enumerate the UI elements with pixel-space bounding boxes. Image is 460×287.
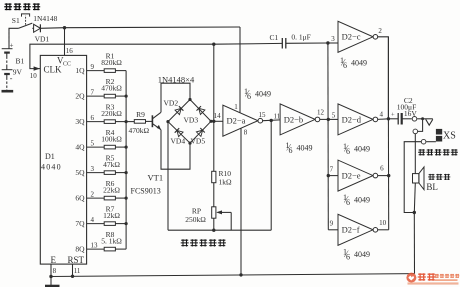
wire switch to diode — [32, 27, 33, 29]
svg-text:C1: C1 — [270, 33, 279, 42]
CLK arrowhead — [34, 66, 40, 70]
wire D2-f out — [378, 229, 389, 231]
inverter U2d D2-d 4049 — [328, 118, 338, 120]
wire pin1 supply — [239, 27, 241, 113]
wire summing bus — [125, 71, 127, 250]
resistor R10 — [213, 121, 215, 171]
svg-text:2Q: 2Q — [75, 92, 85, 101]
svg-text:8: 8 — [244, 129, 248, 137]
bridge frame — [168, 100, 211, 144]
svg-text:D2−b: D2−b — [284, 114, 303, 124]
svg-text:6: 6 — [91, 114, 95, 122]
svg-text:5Q: 5Q — [75, 168, 85, 177]
svg-text:D2−d: D2−d — [342, 114, 362, 124]
svg-text:VD2: VD2 — [164, 99, 179, 108]
svg-text:XS: XS — [443, 131, 456, 142]
svg-text:4: 4 — [380, 111, 384, 119]
svg-text:3: 3 — [331, 35, 335, 43]
wire bridge left corner down to feedback line — [167, 122, 169, 231]
svg-text:470kΩ: 470kΩ — [129, 126, 150, 135]
inverter U2f D2-f 4049 — [328, 229, 338, 231]
jack XS contact 3 — [421, 139, 426, 144]
svg-text:250kΩ: 250kΩ — [185, 215, 206, 224]
svg-text:D1: D1 — [45, 152, 55, 161]
wire D2-a out to D2-b — [263, 119, 280, 122]
wire feedback bottom line — [168, 229, 271, 231]
battery B1 — [7, 28, 9, 89]
svg-text:9V: 9V — [13, 68, 23, 77]
svg-text:10: 10 — [379, 219, 387, 227]
svg-text:1N4148: 1N4148 — [33, 14, 57, 23]
node supply junction — [63, 26, 66, 29]
capacitor C1 0.1uF — [214, 42, 282, 45]
svg-text:22kΩ: 22kΩ — [103, 186, 120, 195]
diode VD1 — [34, 24, 41, 32]
svg-text:1N4148×4: 1N4148×4 — [158, 74, 195, 84]
svg-text:14: 14 — [214, 112, 222, 120]
wire D2-d out — [378, 118, 389, 121]
svg-text:CC: CC — [63, 61, 71, 67]
inverter U2c D2-c 4049 — [338, 21, 373, 52]
wire node B bus — [327, 43, 329, 230]
svg-text:VD5: VD5 — [191, 136, 206, 145]
svg-text:VD4: VD4 — [171, 136, 186, 145]
svg-text:2: 2 — [378, 27, 382, 35]
svg-text:11: 11 — [74, 267, 81, 275]
wire bridge right to D2-a input — [211, 120, 223, 122]
wire contact3 to speaker bottom — [404, 142, 421, 213]
svg-text:R9: R9 — [136, 110, 145, 119]
label 弹簧按钮 — [4, 3, 12, 10]
wire CLK trigger line (node A to CLK) — [30, 44, 214, 68]
wire D2-e out — [378, 175, 389, 177]
svg-text:12: 12 — [317, 109, 325, 117]
label 外接扬声器 — [418, 149, 425, 155]
svg-text:2: 2 — [91, 190, 95, 198]
svg-text:1kΩ: 1kΩ — [219, 177, 233, 186]
svg-text:D2−e: D2−e — [342, 171, 361, 181]
svg-text:0. 1μF: 0. 1μF — [291, 33, 310, 42]
svg-text:9: 9 — [330, 220, 334, 228]
svg-text:100kΩ: 100kΩ — [101, 135, 122, 144]
svg-text:VD3: VD3 — [184, 116, 199, 125]
svg-text:VT1: VT1 — [148, 173, 164, 183]
inverter U2b D2-b 4049 — [280, 104, 315, 135]
wire battery to switch — [9, 28, 19, 42]
jack XS contact 1 — [412, 117, 417, 122]
watermark logo — [406, 273, 459, 285]
svg-text:8: 8 — [53, 267, 57, 275]
svg-text:+: + — [391, 111, 395, 118]
svg-text:FCS9013: FCS9013 — [131, 186, 161, 195]
svg-text:3: 3 — [91, 165, 95, 173]
svg-text:15: 15 — [259, 111, 267, 119]
jack XS sleeve block — [436, 129, 442, 135]
svg-text:B1: B1 — [16, 57, 25, 66]
svg-text:47kΩ: 47kΩ — [103, 160, 120, 169]
inverter U2e D2-e 4049 — [328, 175, 338, 177]
svg-text:1Q: 1Q — [75, 66, 85, 75]
svg-text:7Q: 7Q — [75, 219, 85, 228]
svg-text:5: 5 — [91, 139, 95, 147]
wire D2-a out feedback drop — [270, 120, 272, 230]
svg-text:4040: 4040 — [41, 163, 62, 172]
svg-text:S1: S1 — [12, 16, 20, 25]
wire emitter loop — [161, 130, 190, 170]
label 扬声器 — [428, 174, 435, 180]
node B top junction — [326, 41, 329, 44]
wire output bus — [387, 37, 389, 119]
wire ground rail — [51, 274, 415, 277]
IC pins E RST to ground — [50, 264, 52, 276]
svg-text:470kΩ: 470kΩ — [101, 84, 122, 93]
wire pin8 ground — [240, 128, 242, 274]
svg-text:4Q: 4Q — [75, 143, 85, 152]
wire D2-b out to node B — [320, 118, 329, 120]
svg-text:D2−f: D2−f — [342, 225, 360, 235]
svg-text:7: 7 — [91, 88, 95, 96]
speaker BL — [414, 134, 416, 174]
svg-text:12kΩ: 12kΩ — [103, 211, 120, 220]
svg-text:RST: RST — [68, 255, 85, 265]
svg-text:8Q: 8Q — [75, 245, 85, 254]
svg-text:4: 4 — [91, 216, 95, 224]
label 线性电位器 — [181, 239, 189, 246]
wire D2-c out — [378, 37, 389, 119]
RP wiper arrow — [218, 211, 232, 213]
svg-text:D2−c: D2−c — [342, 32, 361, 42]
resistor R9 — [126, 121, 134, 123]
svg-text:3Q: 3Q — [75, 117, 85, 126]
ground symbol — [50, 277, 52, 286]
potentiometer RP 250k — [213, 183, 215, 207]
svg-text:6: 6 — [380, 165, 384, 173]
diode VD2 — [175, 108, 181, 114]
diode VD5 — [196, 130, 202, 136]
jack XS contact 2 — [413, 129, 418, 134]
wire Vcc pin16 — [64, 28, 66, 56]
wire top supply rail — [40, 27, 64, 30]
capacitor C2 100uF16V — [388, 118, 398, 120]
svg-text:1: 1 — [234, 103, 238, 111]
svg-text:VD1: VD1 — [35, 35, 50, 44]
svg-text:+: + — [10, 42, 14, 50]
svg-text:5. 1kΩ: 5. 1kΩ — [101, 237, 122, 246]
svg-text:820kΩ: 820kΩ — [101, 58, 122, 67]
diode VD4 — [177, 130, 183, 136]
diode VD3 — [199, 108, 205, 114]
jack blade V — [426, 119, 433, 125]
ground (battery) — [6, 89, 8, 92]
transistor Q1 VT1 FCS9013 — [151, 115, 153, 127]
IC U1 D1 4040 box — [40, 55, 86, 264]
wire node A vertical — [213, 44, 215, 121]
svg-text:9: 9 — [91, 63, 95, 71]
svg-text:D2−a: D2−a — [227, 116, 246, 126]
svg-text:5: 5 — [332, 112, 336, 120]
op-amp/inverter U2a D2-a 4049 — [223, 105, 258, 136]
svg-text:E: E — [51, 255, 57, 265]
svg-text:6Q: 6Q — [75, 194, 85, 203]
svg-text:10: 10 — [30, 72, 38, 80]
svg-text:BL: BL — [426, 182, 438, 192]
node A junction — [212, 43, 215, 46]
svg-text:CLK: CLK — [44, 64, 63, 74]
svg-text:13: 13 — [91, 241, 99, 249]
svg-text:220kΩ: 220kΩ — [101, 109, 122, 118]
wire collector loop — [161, 83, 190, 112]
svg-text:7: 7 — [330, 166, 334, 174]
svg-text:16: 16 — [66, 47, 74, 55]
jack elbow to contact 2 — [418, 119, 423, 132]
